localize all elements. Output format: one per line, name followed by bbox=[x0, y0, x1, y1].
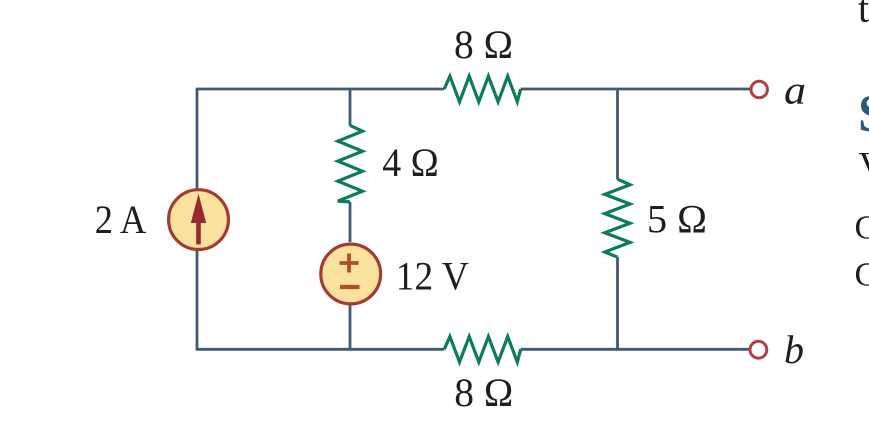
terminal b (open circle) bbox=[750, 341, 767, 358]
wire: middle branch between 4-ohm and 12V source bbox=[349, 202, 352, 242]
svg-text:8 Ω: 8 Ω bbox=[454, 22, 513, 67]
svg-text:S: S bbox=[858, 85, 869, 143]
voltage source plus sign bbox=[340, 254, 359, 273]
current source I1 2A (circle) bbox=[169, 190, 229, 250]
svg-text:V: V bbox=[859, 146, 869, 187]
svg-text:2 A: 2 A bbox=[95, 197, 147, 242]
svg-text:12 V: 12 V bbox=[396, 253, 469, 298]
svg-text:b: b bbox=[784, 327, 804, 372]
voltage source minus sign bbox=[340, 285, 360, 289]
terminal a (open circle) bbox=[751, 81, 767, 97]
resistor 8 ohm (bottom) bbox=[444, 337, 521, 363]
svg-text:C: C bbox=[855, 256, 869, 293]
resistor 8 ohm (top) bbox=[444, 76, 521, 102]
wire: top rail right segment to terminal a bbox=[521, 88, 750, 91]
wire: bottom rail left segment bbox=[197, 348, 444, 351]
resistor 4 ohm (middle branch, vertical) bbox=[338, 125, 363, 201]
wire: middle branch upper bbox=[349, 89, 352, 126]
resistor 5 ohm (right branch, vertical) bbox=[605, 179, 630, 257]
wire: right branch lower bbox=[616, 257, 619, 349]
svg-text:5 Ω: 5 Ω bbox=[647, 197, 707, 242]
svg-text:t: t bbox=[858, 0, 869, 31]
wire: bottom rail right segment to terminal b bbox=[521, 348, 749, 351]
svg-text:C: C bbox=[855, 210, 869, 247]
wire: left rail upper bbox=[196, 88, 199, 189]
wire: middle branch lower bbox=[349, 304, 352, 349]
svg-text:4 Ω: 4 Ω bbox=[382, 140, 439, 185]
svg-text:a: a bbox=[784, 67, 806, 112]
current source arrow bbox=[191, 194, 206, 245]
voltage source V1 12V (circle) bbox=[321, 244, 381, 304]
wire: top rail left segment bbox=[197, 88, 444, 91]
wire: right branch upper bbox=[616, 89, 619, 179]
svg-text:8 Ω: 8 Ω bbox=[454, 370, 513, 415]
wire: left rail lower bbox=[196, 251, 199, 351]
